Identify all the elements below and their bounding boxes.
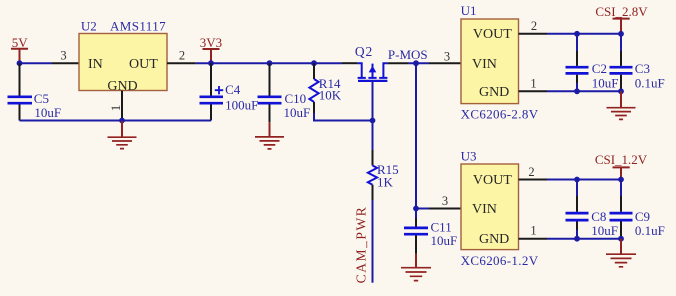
transistor Q2 P-MOS bbox=[342, 44, 408, 120]
wire R14 bottom to Q2 gate bbox=[314, 113, 373, 121]
wire R15 to CAM_PWR bbox=[372, 200, 374, 283]
svg-text:P-MOS: P-MOS bbox=[388, 47, 428, 62]
node 5V junction bbox=[17, 60, 23, 66]
svg-text:3: 3 bbox=[444, 49, 450, 63]
svg-text:3: 3 bbox=[60, 49, 66, 63]
svg-text:10uF: 10uF bbox=[431, 233, 458, 248]
wire C11 to U3 VIN bbox=[416, 208, 429, 210]
svg-text:U2: U2 bbox=[81, 19, 97, 34]
power port CSI_1.2V bbox=[595, 152, 648, 180]
pin 1 U2 GND bbox=[108, 91, 123, 121]
svg-text:2: 2 bbox=[531, 19, 537, 33]
svg-text:3: 3 bbox=[442, 194, 448, 208]
svg-text:C2: C2 bbox=[592, 61, 607, 76]
node GND junction bbox=[119, 118, 125, 124]
svg-text:2: 2 bbox=[179, 49, 185, 63]
pin 2 U1 VOUT bbox=[519, 19, 548, 34]
svg-text:VOUT: VOUT bbox=[473, 27, 512, 42]
ground G2 bbox=[255, 122, 284, 149]
svg-text:10uF: 10uF bbox=[591, 223, 618, 238]
node C11 junction bbox=[413, 206, 419, 212]
wire U3 GND rail bbox=[547, 238, 621, 240]
capacitor C4 polarized bbox=[200, 63, 259, 120]
svg-text:Q2: Q2 bbox=[355, 44, 373, 59]
svg-text:1: 1 bbox=[530, 76, 536, 90]
svg-text:1K: 1K bbox=[377, 175, 394, 190]
svg-text:IN: IN bbox=[88, 57, 103, 72]
capacitor C9 bbox=[610, 180, 665, 239]
svg-text:C10: C10 bbox=[285, 91, 307, 106]
pin 1 U1 GND bbox=[519, 76, 548, 91]
svg-text:GND: GND bbox=[479, 85, 509, 100]
regulator U2 body bbox=[79, 34, 167, 91]
node R14 junction bbox=[311, 60, 317, 66]
power port 3V3 bbox=[200, 35, 222, 63]
svg-text:C5: C5 bbox=[34, 91, 49, 106]
ground G4 bbox=[607, 91, 636, 119]
wire Q2 drain to U1 VIN bbox=[408, 62, 429, 64]
node Q2 gate junction bbox=[370, 118, 376, 124]
wire VOUT rail bbox=[547, 33, 621, 35]
pin 3 U3 VIN bbox=[429, 194, 461, 209]
capacitor C5 bbox=[8, 63, 62, 120]
svg-text:OUT: OUT bbox=[129, 57, 158, 72]
svg-text:VOUT: VOUT bbox=[473, 173, 512, 188]
wire U3 VOUT rail bbox=[547, 179, 621, 181]
svg-text:1: 1 bbox=[530, 224, 536, 238]
svg-text:10uF: 10uF bbox=[592, 75, 619, 90]
svg-text:C9: C9 bbox=[635, 209, 650, 224]
svg-text:U1: U1 bbox=[461, 3, 477, 18]
capacitor C3 bbox=[610, 34, 665, 92]
svg-text:10uF: 10uF bbox=[34, 105, 61, 120]
wire GND rail bbox=[547, 90, 621, 92]
svg-text:3V3: 3V3 bbox=[200, 35, 222, 50]
capacitor C2 bbox=[566, 34, 619, 92]
capacitor C11 bbox=[404, 209, 457, 254]
svg-text:C8: C8 bbox=[591, 209, 606, 224]
pin 2 U3 VOUT bbox=[519, 165, 548, 180]
wire 5V node to U2 IN bbox=[20, 62, 53, 64]
svg-text:U3: U3 bbox=[461, 149, 477, 164]
power port 5V bbox=[11, 35, 28, 63]
ground G1 bbox=[108, 121, 137, 149]
svg-text:0.1uF: 0.1uF bbox=[635, 223, 665, 238]
node 3V3 junction bbox=[208, 60, 214, 66]
regulator U3 body bbox=[461, 164, 519, 250]
svg-text:CSI_1.2V: CSI_1.2V bbox=[595, 152, 648, 167]
resistor R14 bbox=[309, 63, 341, 113]
svg-text:C4: C4 bbox=[225, 82, 241, 97]
node U3 VOUT junctions bbox=[574, 177, 580, 183]
svg-text:1: 1 bbox=[108, 105, 123, 112]
power port CSI_2.8V bbox=[595, 4, 648, 34]
capacitor C8 bbox=[566, 180, 618, 239]
ground G5 bbox=[606, 239, 636, 267]
svg-text:GND: GND bbox=[479, 232, 509, 247]
ground G3 bbox=[401, 254, 431, 281]
regulator U1 body bbox=[461, 19, 519, 104]
svg-text:10uF: 10uF bbox=[284, 105, 311, 120]
svg-text:C3: C3 bbox=[635, 61, 650, 76]
pin 2 U2 OUT bbox=[167, 49, 196, 64]
node VOUT junctions bbox=[574, 31, 580, 37]
svg-text:VIN: VIN bbox=[472, 202, 497, 217]
wire P-MOS vertical bbox=[415, 63, 417, 208]
pin 3 U2 IN bbox=[52, 49, 79, 64]
svg-text:CAM_PWR: CAM_PWR bbox=[353, 206, 368, 284]
pin 3 U1 VIN bbox=[429, 49, 461, 63]
svg-text:100uF: 100uF bbox=[225, 98, 258, 113]
node C10 junction bbox=[267, 60, 273, 66]
svg-text:10K: 10K bbox=[319, 88, 342, 103]
svg-text:AMS1117: AMS1117 bbox=[110, 19, 166, 34]
svg-text:XC6206-1.2V: XC6206-1.2V bbox=[461, 253, 539, 268]
capacitor C10 bbox=[258, 63, 311, 122]
svg-text:CSI_2.8V: CSI_2.8V bbox=[595, 4, 648, 19]
svg-text:0.1uF: 0.1uF bbox=[635, 75, 665, 90]
wire OUT to Q2 source bbox=[196, 62, 342, 64]
svg-text:2: 2 bbox=[528, 165, 534, 179]
svg-text:VIN: VIN bbox=[472, 57, 497, 72]
wire bottom rail C5 to C4 bbox=[20, 120, 212, 122]
svg-text:XC6206-2.8V: XC6206-2.8V bbox=[461, 106, 539, 121]
node GND junctions bbox=[574, 88, 580, 94]
pin 1 U3 GND bbox=[519, 224, 548, 239]
node U3 GND junctions bbox=[574, 236, 580, 242]
node P-MOS junction bbox=[413, 60, 419, 66]
resistor R15 bbox=[368, 121, 399, 201]
